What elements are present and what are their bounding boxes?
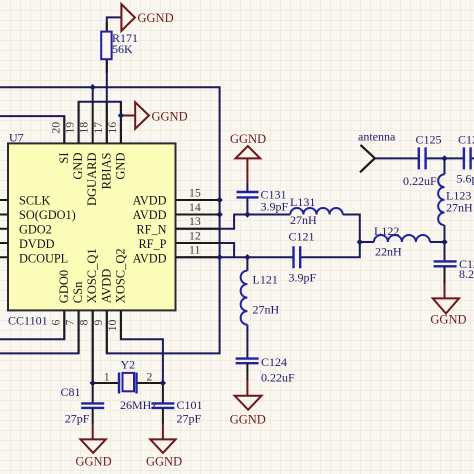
svg-text:12: 12 xyxy=(189,228,201,242)
wire after L131 down to C121 right xyxy=(300,215,360,258)
svg-text:5.6pF: 5.6pF xyxy=(457,172,474,186)
ground GGND below C123 xyxy=(433,266,459,313)
svg-text:XOSC_Q1: XOSC_Q1 xyxy=(85,248,99,303)
svg-text:AVDD: AVDD xyxy=(133,208,167,222)
svg-text:19: 19 xyxy=(63,122,77,134)
junction at crystal pin 2 xyxy=(160,380,166,386)
junction at AVDD pin11 xyxy=(216,254,222,260)
crystal Y2 xyxy=(119,373,137,394)
ground GGND above C131 (up-pointing) xyxy=(236,146,261,192)
junction at pin18/supply xyxy=(90,84,96,90)
svg-text:11: 11 xyxy=(189,243,200,257)
ground GGND below C101 xyxy=(150,408,175,453)
wire L123 bottom to C123 xyxy=(444,225,446,261)
capacitor C101 xyxy=(151,403,174,408)
wire C125 to C126 xyxy=(426,157,474,159)
svg-text:8.2pF: 8.2pF xyxy=(459,267,474,281)
capacitor C81 xyxy=(81,403,104,408)
wire antenna to C125 xyxy=(375,157,419,159)
svg-text:SO(GDO1): SO(GDO1) xyxy=(19,208,76,222)
svg-text:SI: SI xyxy=(57,153,71,164)
svg-text:L131: L131 xyxy=(290,195,315,209)
svg-text:16: 16 xyxy=(105,122,119,134)
svg-text:GGND: GGND xyxy=(230,412,266,426)
junction at L121 top xyxy=(244,254,250,260)
svg-text:20: 20 xyxy=(48,122,62,134)
capacitor C123 xyxy=(434,261,457,266)
inductor L123 xyxy=(438,174,444,225)
svg-text:GDO2: GDO2 xyxy=(19,223,52,237)
wire C81 drop xyxy=(92,383,94,403)
IC U7 CC1101 body xyxy=(8,143,176,310)
svg-text:AVDD: AVDD xyxy=(133,194,167,208)
ground GGND top (right-pointing) xyxy=(121,4,134,31)
svg-text:C126: C126 xyxy=(458,133,474,147)
wire ground bracket pins 19-16 xyxy=(79,102,121,144)
capacitor C131 xyxy=(237,192,259,197)
svg-text:L122: L122 xyxy=(374,224,399,238)
svg-text:1: 1 xyxy=(104,370,110,384)
svg-text:14: 14 xyxy=(189,200,201,214)
svg-text:56K: 56K xyxy=(112,42,133,56)
capacitor C125 xyxy=(419,147,426,169)
svg-text:XOSC_Q2: XOSC_Q2 xyxy=(113,248,127,303)
svg-text:GGND: GGND xyxy=(76,454,112,468)
svg-text:GND: GND xyxy=(71,153,85,180)
svg-text:0.22uF: 0.22uF xyxy=(403,174,437,188)
wire L123 top xyxy=(444,158,446,174)
junction at C125/C126 xyxy=(441,155,447,161)
wire C101 drop xyxy=(162,383,164,403)
wire R171 top to GGND xyxy=(107,17,122,31)
svg-text:27nH: 27nH xyxy=(446,200,473,214)
svg-text:13: 13 xyxy=(189,214,201,228)
svg-text:18: 18 xyxy=(77,122,91,134)
svg-text:26MHz: 26MHz xyxy=(120,398,157,412)
svg-text:L121: L121 xyxy=(253,273,278,287)
svg-text:GDO0: GDO0 xyxy=(57,270,71,303)
svg-text:C81: C81 xyxy=(61,385,81,399)
antenna xyxy=(360,145,375,172)
svg-text:7: 7 xyxy=(63,320,77,326)
svg-text:C124: C124 xyxy=(261,355,287,369)
svg-text:RF_P: RF_P xyxy=(138,237,166,251)
wire crystal left xyxy=(93,382,119,384)
svg-text:27nH: 27nH xyxy=(253,303,280,317)
junction at AVDD pin15 xyxy=(216,197,222,203)
svg-text:0.22uF: 0.22uF xyxy=(261,371,295,385)
svg-text:3.9pF: 3.9pF xyxy=(289,271,317,285)
inductor L121 xyxy=(241,271,248,325)
svg-text:SCLK: SCLK xyxy=(19,194,51,208)
svg-text:RF_N: RF_N xyxy=(136,223,166,237)
svg-text:CSn: CSn xyxy=(71,281,85,303)
junction at L122 right xyxy=(441,239,447,245)
junction at pin16/GGND xyxy=(118,112,124,118)
svg-text:27nH: 27nH xyxy=(290,213,317,227)
pin stubs top black segments xyxy=(64,102,121,144)
junction at crystal pin 1 xyxy=(90,380,96,386)
svg-text:10: 10 xyxy=(105,319,119,331)
svg-text:DCOUPL: DCOUPL xyxy=(19,252,68,266)
pin stubs right black segments xyxy=(176,200,220,257)
wire L122 row left xyxy=(360,241,374,243)
wire crystal right xyxy=(137,382,163,384)
ground GGND below C81 xyxy=(81,408,106,453)
junction at L122 left xyxy=(357,239,363,245)
svg-text:GGND: GGND xyxy=(146,454,182,468)
svg-text:C121: C121 xyxy=(289,230,315,244)
svg-text:15: 15 xyxy=(189,185,201,199)
wire SI from left edge to pin 20 xyxy=(0,116,64,143)
wire RF_N pin 13 route xyxy=(176,215,291,229)
wire CSn pin 7 to left edge xyxy=(0,310,79,353)
svg-text:antenna: antenna xyxy=(358,130,396,144)
inductor L131 xyxy=(290,208,342,215)
pin stubs bottom black segments xyxy=(64,310,121,383)
svg-text:Y2: Y2 xyxy=(121,358,136,372)
svg-text:GND: GND xyxy=(113,153,127,180)
svg-text:GGND: GGND xyxy=(152,109,188,123)
svg-text:2: 2 xyxy=(147,370,153,384)
wire L121 connections xyxy=(246,257,248,357)
wire AVDD supply net (left edge to right vertical, down to pin 9) xyxy=(0,87,220,353)
wire right stub pin 11 xyxy=(176,256,220,258)
svg-text:17: 17 xyxy=(91,122,105,134)
svg-text:C101: C101 xyxy=(177,398,203,412)
svg-text:DVDD: DVDD xyxy=(19,237,55,251)
svg-text:U7: U7 xyxy=(9,130,24,144)
wire pin 18 up to supply xyxy=(92,87,94,102)
ground GGND below C124 xyxy=(235,363,262,410)
svg-text:3.9pF: 3.9pF xyxy=(261,200,289,214)
svg-text:6: 6 xyxy=(48,320,62,326)
svg-text:RBIAS: RBIAS xyxy=(99,152,113,189)
junction at AVDD pin14 xyxy=(216,211,222,217)
wire L122 row right xyxy=(430,241,445,243)
svg-text:GGND: GGND xyxy=(230,132,266,146)
svg-text:DGUARD: DGUARD xyxy=(85,153,99,206)
wire RF_P pin 12 route xyxy=(176,243,235,257)
svg-text:C125: C125 xyxy=(416,133,442,147)
inductor L122 xyxy=(374,235,430,242)
wire C121 row xyxy=(220,256,294,258)
pin stubs left (1-5) xyxy=(0,200,8,257)
wire right stub pin 14 xyxy=(176,214,220,216)
wire XOSC_Q2 pin 10 route to crystal right node xyxy=(121,310,163,383)
ground GGND pin16 (right-pointing) xyxy=(121,102,149,129)
wire C131 bottom to RF_N row xyxy=(246,198,248,215)
svg-text:AVDD: AVDD xyxy=(133,252,167,266)
svg-text:CC1101: CC1101 xyxy=(8,314,48,328)
resistor R171 xyxy=(101,32,111,60)
svg-text:GGND: GGND xyxy=(430,313,466,327)
svg-text:8: 8 xyxy=(77,320,91,326)
svg-text:GGND: GGND xyxy=(138,11,174,25)
capacitor C121 xyxy=(294,246,301,268)
wire right stub pin 15 xyxy=(176,199,220,201)
svg-text:27pF: 27pF xyxy=(65,411,90,425)
capacitor C126 xyxy=(464,147,471,169)
wire XOSC_Q1 pin 8 down to crystal node xyxy=(92,310,94,383)
svg-text:9: 9 xyxy=(91,320,105,326)
svg-text:22nH: 22nH xyxy=(375,245,402,259)
wire pin 17 RBIAS up to R171 xyxy=(106,59,108,143)
junction at C131/RF_N xyxy=(244,211,250,217)
svg-text:AVDD: AVDD xyxy=(99,269,113,304)
wire GDO0 pin 6 to left edge xyxy=(0,310,64,339)
capacitor C124 xyxy=(236,359,259,364)
svg-text:27pF: 27pF xyxy=(177,411,202,425)
